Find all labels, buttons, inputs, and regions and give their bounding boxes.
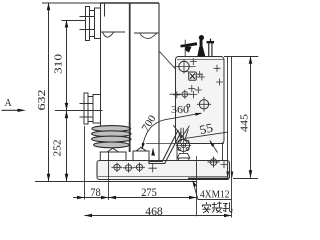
upper bushing stub lines xyxy=(80,17,95,30)
svg-text:468: 468 xyxy=(145,204,163,218)
dim 632 line xyxy=(48,3,50,182)
small cross b xyxy=(216,79,223,86)
svg-text:632: 632 xyxy=(36,90,48,111)
arc arrow vertical xyxy=(151,148,155,156)
base hole 4 cross xyxy=(149,164,158,172)
dim row2 line xyxy=(85,215,232,217)
handle upper position line xyxy=(186,132,227,138)
view arrow A xyxy=(2,109,20,111)
lower bushing stub lines xyxy=(80,104,94,118)
bushing centerline xyxy=(55,110,103,112)
row1 arrows xyxy=(77,196,197,200)
dim row1 line xyxy=(73,197,197,199)
arc arrow left xyxy=(142,143,145,150)
body center divider xyxy=(129,3,131,152)
support bracket 1 xyxy=(100,148,127,160)
dim 310 252 line xyxy=(66,20,68,181)
base inner bottom line xyxy=(98,175,228,177)
pivot mount bracket xyxy=(177,153,190,160)
body top edge xyxy=(101,2,160,4)
square top tick xyxy=(183,71,189,73)
panel bottom line xyxy=(146,143,224,145)
4XM12 underline xyxy=(198,199,232,201)
bellows rib 4 xyxy=(94,142,130,148)
pivot hub xyxy=(176,138,192,154)
mechanism panel xyxy=(176,57,225,144)
level mark left xyxy=(101,32,126,37)
small cross i xyxy=(196,71,203,77)
bellows rib 1 xyxy=(92,126,131,132)
extension 445 top xyxy=(224,56,258,58)
svg-text:4XM12: 4XM12 xyxy=(200,189,230,201)
bellows rib 2 xyxy=(92,131,132,137)
extension 445 bottom xyxy=(233,178,258,180)
divider lower segment xyxy=(129,122,131,152)
rail down arrow 2 xyxy=(231,172,234,179)
handle silhouette on top xyxy=(180,35,214,57)
small cross d xyxy=(195,87,202,94)
body inner left wall xyxy=(104,3,106,17)
small cross a xyxy=(214,65,221,72)
arc arrow right xyxy=(195,113,202,116)
bottom datum line xyxy=(35,181,197,183)
panel rear rails xyxy=(228,57,232,218)
base hole 1 xyxy=(112,163,123,173)
dim 445 line xyxy=(250,56,252,178)
svg-text:55: 55 xyxy=(198,121,214,138)
handle guide line xyxy=(184,40,186,57)
svg-text:445: 445 xyxy=(238,113,250,132)
base plate thick bottom edge xyxy=(188,178,229,180)
body right wall xyxy=(158,3,160,162)
swing arc xyxy=(142,113,201,149)
small circle cross e xyxy=(170,90,191,99)
base right hole xyxy=(208,157,220,168)
body left wall xyxy=(100,3,102,127)
rail down arrow 1 xyxy=(226,172,229,179)
base right small cross xyxy=(221,161,228,168)
panel legs xyxy=(177,144,223,161)
yoke xyxy=(173,125,189,141)
square side line and cross xyxy=(197,74,205,81)
svg-text:A: A xyxy=(5,98,13,109)
upper bushing plate middle xyxy=(90,11,95,37)
extension line y20 xyxy=(62,20,87,22)
operating handle lever xyxy=(149,130,181,163)
small cross c xyxy=(188,85,195,92)
support bracket 2 xyxy=(133,147,150,160)
leader 55 xyxy=(210,141,218,153)
lower bushing plate middle xyxy=(88,97,93,122)
extension x108.5 xyxy=(108,153,110,201)
diagonal strut xyxy=(160,52,176,69)
upper bushing plate outer xyxy=(86,7,90,41)
svg-text:310: 310 xyxy=(53,53,65,74)
small cross g xyxy=(190,91,197,98)
base hole 2 xyxy=(123,163,134,173)
panel circle top xyxy=(174,59,196,74)
base plate xyxy=(97,161,230,180)
lower bushing plate inner xyxy=(93,95,101,124)
extension x196.5 xyxy=(196,163,198,216)
panel circle mid xyxy=(197,97,211,112)
base hole 3 xyxy=(134,163,145,173)
upper bushing plate inner xyxy=(95,8,101,39)
row2 arrows xyxy=(85,214,232,218)
bellows rib 3 xyxy=(92,136,132,142)
extension x84.3 xyxy=(84,126,86,200)
svg-text:252: 252 xyxy=(51,140,63,157)
small cross h xyxy=(190,58,197,65)
base right cross xyxy=(192,156,201,165)
4XM12 leader xyxy=(193,181,198,199)
small cross f xyxy=(173,91,180,98)
svg-text:275: 275 xyxy=(141,185,157,199)
level mark right xyxy=(134,33,159,38)
text anzhuangkong (drawn strokes) xyxy=(202,202,232,213)
panel inner lip xyxy=(177,59,224,61)
lower bushing plate outer xyxy=(84,93,88,124)
top extension line xyxy=(42,2,101,4)
svg-text:78: 78 xyxy=(90,185,101,199)
panel crossed square xyxy=(189,72,197,80)
